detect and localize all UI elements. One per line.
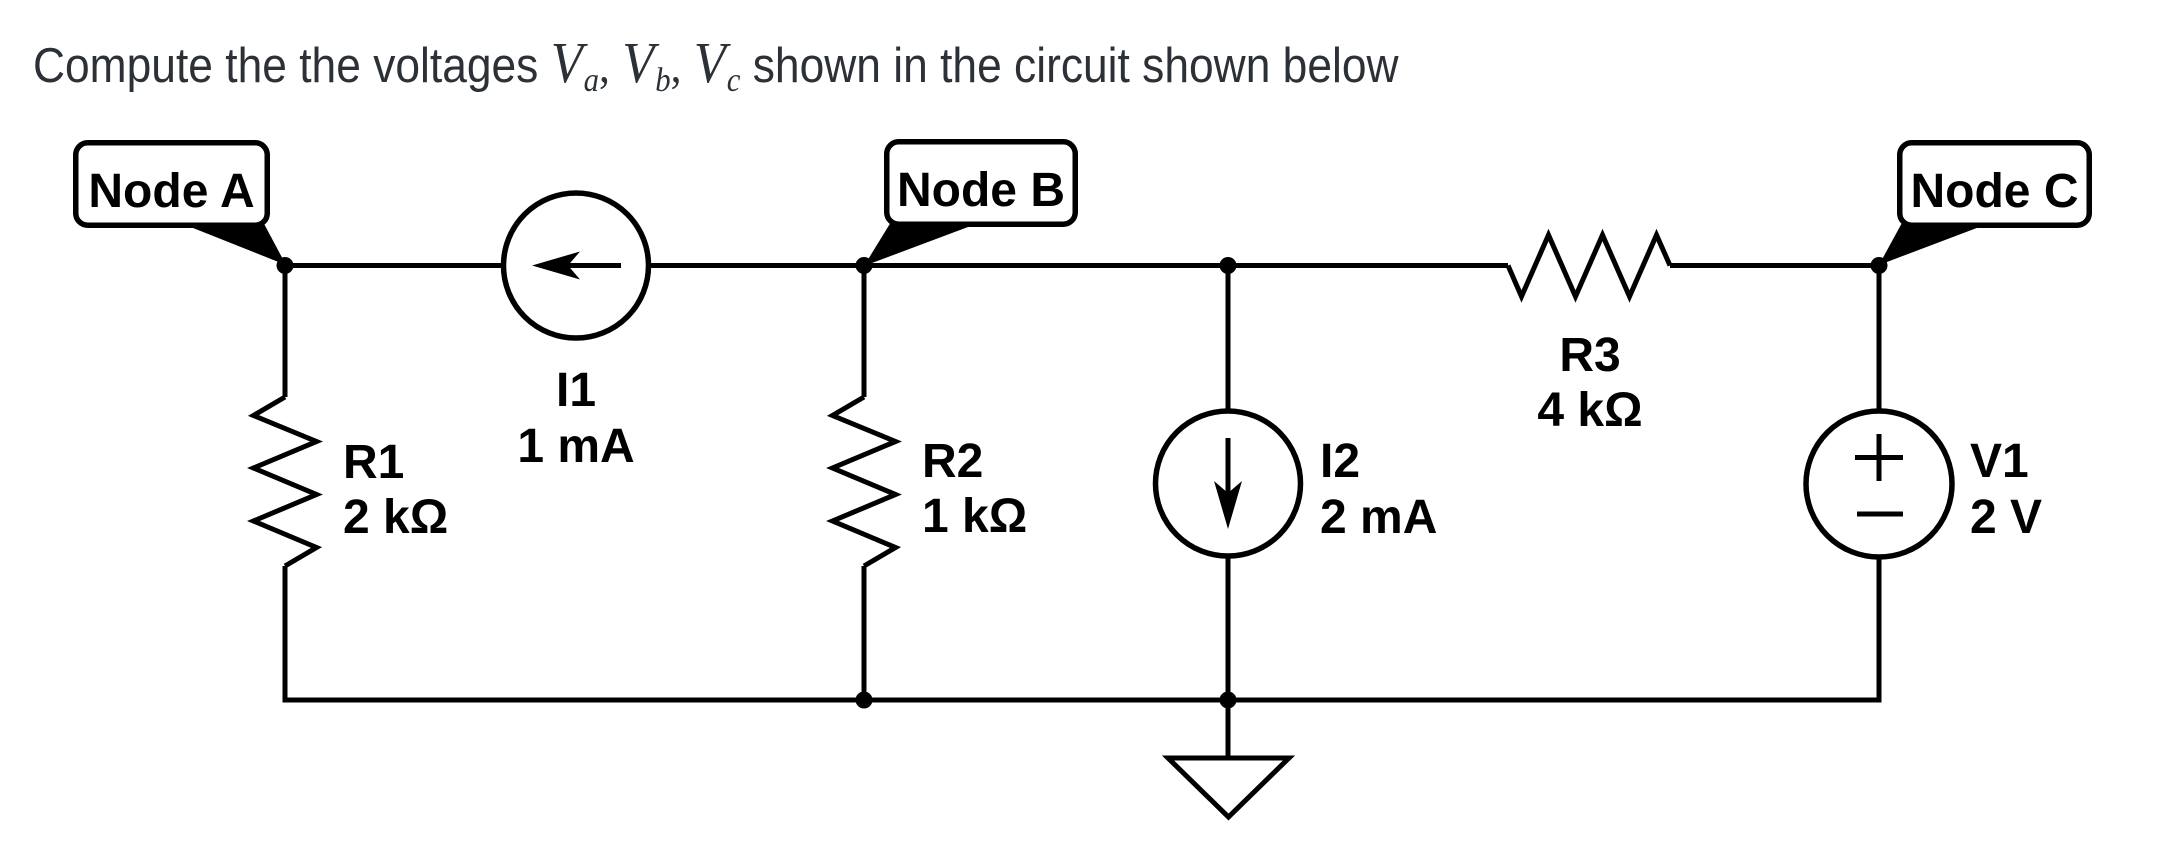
voltage source V1 [1806, 411, 1952, 557]
node A junction dot [277, 257, 294, 274]
label R3 4 kOhm [1537, 329, 1642, 437]
wire: node C down to V1 [1877, 266, 1882, 414]
svg-text:Node A: Node A [88, 165, 254, 218]
node C callout tail [1879, 221, 1982, 265]
node C callout box [1900, 143, 2090, 226]
bottom junction dot at R2 [856, 692, 873, 709]
svg-text:1 kΩ: 1 kΩ [922, 490, 1027, 543]
svg-text:2 kΩ: 2 kΩ [343, 491, 448, 544]
node B callout box [887, 142, 1076, 225]
wire: bottom [285, 698, 1879, 703]
svg-text:V1: V1 [1970, 435, 2029, 488]
node B callout tail [864, 222, 968, 266]
svg-text:R2: R2 [922, 435, 983, 488]
node A callout tail [183, 220, 286, 265]
wire top: node A to I1 [285, 263, 505, 268]
svg-text:R3: R3 [1559, 329, 1620, 382]
ground [1168, 700, 1289, 817]
title [33, 37, 1399, 98]
label I1 1 mA [517, 364, 634, 473]
wire: R2 to bottom wire [862, 566, 867, 700]
top junction dot at I2 [1220, 257, 1237, 274]
node B junction dot [856, 257, 873, 274]
svg-text:I2: I2 [1320, 435, 1360, 488]
bottom junction dot at ground [1220, 692, 1237, 709]
wire: I2 to bottom wire [1226, 555, 1231, 700]
label R2 1 kOhm [922, 435, 1027, 543]
wire top: I1 to node B [647, 263, 864, 268]
current source I1 [504, 193, 649, 338]
wire: R1 to bottom left corner [285, 566, 600, 700]
wire: junction down to I2 [1226, 266, 1231, 413]
resistor R1 [254, 397, 317, 566]
wire top: junction to R3 [1228, 263, 1508, 268]
wire top: node B to junction [864, 263, 1228, 268]
label I2 2 mA [1320, 435, 1437, 544]
resistor R3 [1508, 235, 1670, 297]
label R1 2 kOhm [343, 436, 448, 544]
wire: node B down to R2 [862, 266, 867, 398]
resistor R2 [833, 397, 896, 566]
svg-text:2 V: 2 V [1970, 491, 2042, 544]
svg-text:Node B: Node B [897, 164, 1065, 217]
current source I2 [1156, 411, 1301, 556]
svg-text:I1: I1 [556, 364, 596, 417]
wire: V1 to bottom right corner [1600, 556, 1879, 700]
node C junction dot [1871, 257, 1888, 274]
svg-text:1 mA: 1 mA [517, 420, 634, 473]
node A callout box [76, 143, 268, 226]
svg-text:4 kΩ: 4 kΩ [1537, 384, 1642, 437]
svg-text:R1: R1 [343, 436, 404, 489]
wire top: R3 to node C [1670, 263, 1879, 268]
svg-text:Node C: Node C [1911, 165, 2079, 218]
svg-text:2 mA: 2 mA [1320, 491, 1437, 544]
wire: node A down to R1 [283, 266, 288, 398]
label V1 2 V [1970, 435, 2042, 544]
